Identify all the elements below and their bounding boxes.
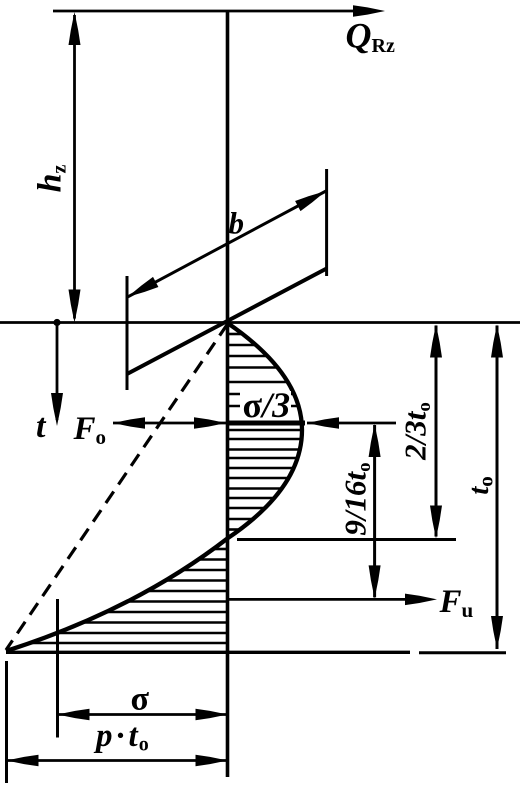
svg-text:σ: σ	[131, 681, 150, 718]
svg-text:σ/3: σ/3	[243, 385, 291, 425]
svg-text:t: t	[36, 408, 47, 445]
svg-text:b: b	[229, 206, 245, 241]
svg-text:9/16to: 9/16to	[338, 462, 376, 535]
